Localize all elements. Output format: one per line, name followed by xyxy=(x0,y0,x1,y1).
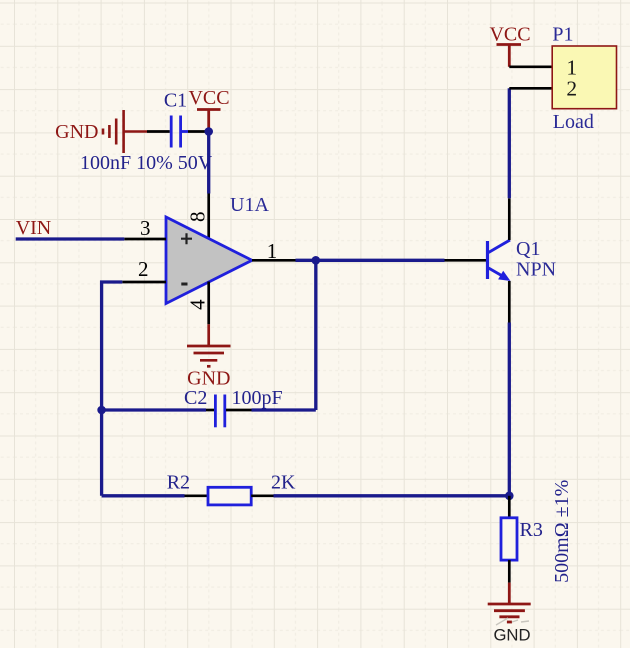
plus marker xyxy=(181,233,192,244)
junction (VCC / C1 / pin 8) xyxy=(204,127,213,136)
resistor R2 xyxy=(208,487,251,505)
pin 4 stub xyxy=(207,282,210,325)
collector stub xyxy=(508,198,511,240)
svg-text:Load: Load xyxy=(553,111,594,133)
wire (R3 top pin) xyxy=(508,496,511,518)
svg-text:100pF: 100pF xyxy=(232,387,283,409)
wire (C2 left pin) xyxy=(206,409,214,412)
connector P1 xyxy=(552,46,616,109)
wire (feedback vertical to C2) xyxy=(314,260,317,410)
artifact smudge (left of bottom ground) xyxy=(496,618,529,625)
wire (C2 to feedback vertical) xyxy=(252,408,316,411)
wire (C1 right pin) xyxy=(188,130,206,133)
svg-text:GND: GND xyxy=(493,626,530,645)
wire (VCC to op-amp pin 8) xyxy=(207,132,210,194)
svg-text:VCC: VCC xyxy=(489,24,530,46)
wire (pin 2 to feedback node) xyxy=(102,282,123,496)
svg-text:NPN: NPN xyxy=(516,259,556,281)
svg-text:2: 2 xyxy=(138,257,149,281)
wire (emitter to R3 node) xyxy=(508,323,511,496)
svg-text:VCC: VCC xyxy=(188,87,229,109)
junction (R2 / emitter / R3) xyxy=(505,492,514,501)
op-amp U1A xyxy=(166,217,252,304)
pin 1 stub of P1 xyxy=(509,65,552,68)
svg-text:4: 4 xyxy=(186,299,210,310)
wire (VIN to pin 3) xyxy=(16,237,125,240)
svg-text:100nF 10% 50V: 100nF 10% 50V xyxy=(80,152,213,174)
emitter stub xyxy=(508,281,511,323)
svg-text:2: 2 xyxy=(566,76,577,100)
wire (P1 pin 2 to collector) xyxy=(508,88,511,198)
pin 3 stub xyxy=(124,238,166,241)
pin 1 output stub xyxy=(252,259,296,262)
wire (C1 left pin) xyxy=(147,130,170,133)
ground (power symbol, left of C1) xyxy=(103,110,147,153)
wire (R2 right pin) xyxy=(251,494,273,497)
power symbol VCC (top right) xyxy=(497,45,522,67)
svg-text:C2: C2 xyxy=(184,387,207,409)
wire (output to base) xyxy=(296,259,445,262)
pin 2 stub of P1 xyxy=(509,87,552,90)
wire (C2 right pin) xyxy=(226,409,252,412)
resistor R3 xyxy=(501,518,517,560)
svg-text:P1: P1 xyxy=(552,24,573,46)
pin 2 stub xyxy=(122,281,166,284)
svg-text:Q1: Q1 xyxy=(516,238,540,260)
wire (R3 bottom pin) xyxy=(508,560,511,583)
wire (base stub) xyxy=(445,259,488,262)
transistor Q1 xyxy=(488,240,511,279)
svg-text:3: 3 xyxy=(140,216,151,240)
junction (inverting node / C2) xyxy=(97,406,106,415)
wire (node to C2 left) xyxy=(102,408,206,411)
capacitor C2 xyxy=(215,395,224,428)
svg-text:U1A: U1A xyxy=(230,194,269,216)
junction (output / feedback) xyxy=(312,256,321,265)
wire (R2 left pin) xyxy=(185,494,209,497)
ground (bottom) xyxy=(488,583,531,622)
capacitor C1 xyxy=(171,116,188,148)
ground (below op-amp) xyxy=(187,324,231,366)
power symbol VCC (top left) xyxy=(197,110,221,132)
svg-text:R2: R2 xyxy=(167,472,190,494)
svg-text:2K: 2K xyxy=(271,472,296,494)
pin 8 stub xyxy=(207,194,210,239)
svg-text:VIN: VIN xyxy=(16,217,52,239)
svg-text:8: 8 xyxy=(186,212,210,223)
svg-text:1: 1 xyxy=(267,239,278,263)
svg-text:C1: C1 xyxy=(164,90,187,112)
svg-text:R3: R3 xyxy=(520,519,543,541)
emitter arrow xyxy=(498,271,510,281)
svg-text:GND: GND xyxy=(55,121,98,143)
wire (feedback to R2 left) xyxy=(102,494,185,497)
wire (R2 to emitter node) xyxy=(274,494,510,497)
svg-text:500mΩ ±1%: 500mΩ ±1% xyxy=(551,480,573,583)
minus marker xyxy=(181,283,187,286)
